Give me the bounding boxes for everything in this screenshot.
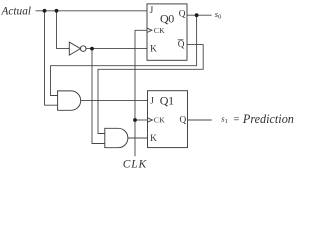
svg-text:K: K	[150, 45, 157, 55]
svg-text:Actual: Actual	[1, 5, 32, 17]
svg-text:Q: Q	[179, 10, 186, 20]
wire NOT output to Q0 K	[86, 48, 147, 50]
svg-text:K: K	[150, 134, 157, 144]
svg-text:Q: Q	[178, 40, 185, 50]
wire Q1 Q output to s1	[188, 119, 212, 121]
inverter U1 triangle	[69, 42, 80, 55]
svg-text:Q: Q	[180, 115, 187, 125]
node junction dot on Actual wire (tap2)	[55, 9, 59, 13]
svg-text:Q0: Q0	[160, 11, 174, 25]
svg-text:s1: s1	[221, 113, 228, 125]
svg-text:J: J	[150, 97, 154, 107]
wire CLK riser to Q0 CK	[135, 30, 147, 156]
svg-text:CLK: CLK	[123, 159, 148, 170]
wire AND1 output to Q1 J	[81, 100, 148, 102]
wire tap3 NOT output to AND2 lower input	[92, 49, 105, 144]
wire Q0 Q output to s0	[187, 14, 212, 16]
svg-text:s0: s0	[215, 9, 222, 21]
svg-text:CK: CK	[154, 116, 165, 125]
clock wedge Q0 CK	[147, 28, 152, 32]
svg-text:Q1: Q1	[160, 94, 174, 108]
clock wedge Q1 CK	[148, 118, 153, 122]
node junction dot on Actual wire (tap1)	[43, 9, 47, 13]
node junction dot CLK branch	[133, 118, 137, 122]
svg-text:CK: CK	[154, 26, 165, 35]
wire Q0 Qbar output feedback to AND2 upper input	[98, 45, 203, 134]
flip-flop U2 Q0 box	[147, 4, 187, 60]
wire tap2 Actual to NOT input	[57, 11, 70, 49]
overline for Q0 Qbar	[178, 39, 184, 41]
wire AND2 output to Q1 K	[128, 137, 148, 139]
svg-text:Prediction: Prediction	[242, 112, 294, 126]
inverter U1 bubble	[80, 46, 86, 52]
svg-text:=: =	[233, 114, 239, 126]
flip-flop U3 Q1 box	[148, 91, 188, 148]
and-gate A2	[105, 128, 128, 147]
node junction dot s0 feedback	[195, 13, 199, 17]
node junction dot NOT output	[90, 47, 94, 51]
wire CLK branch to Q1 CK	[135, 119, 148, 121]
and-gate A1	[58, 91, 81, 110]
svg-text:J: J	[150, 6, 154, 16]
wire feedback s0 to AND1 upper input	[51, 15, 197, 95]
wire Actual input	[36, 10, 148, 12]
wire tap1 Actual to AND1 lower input	[45, 11, 58, 105]
